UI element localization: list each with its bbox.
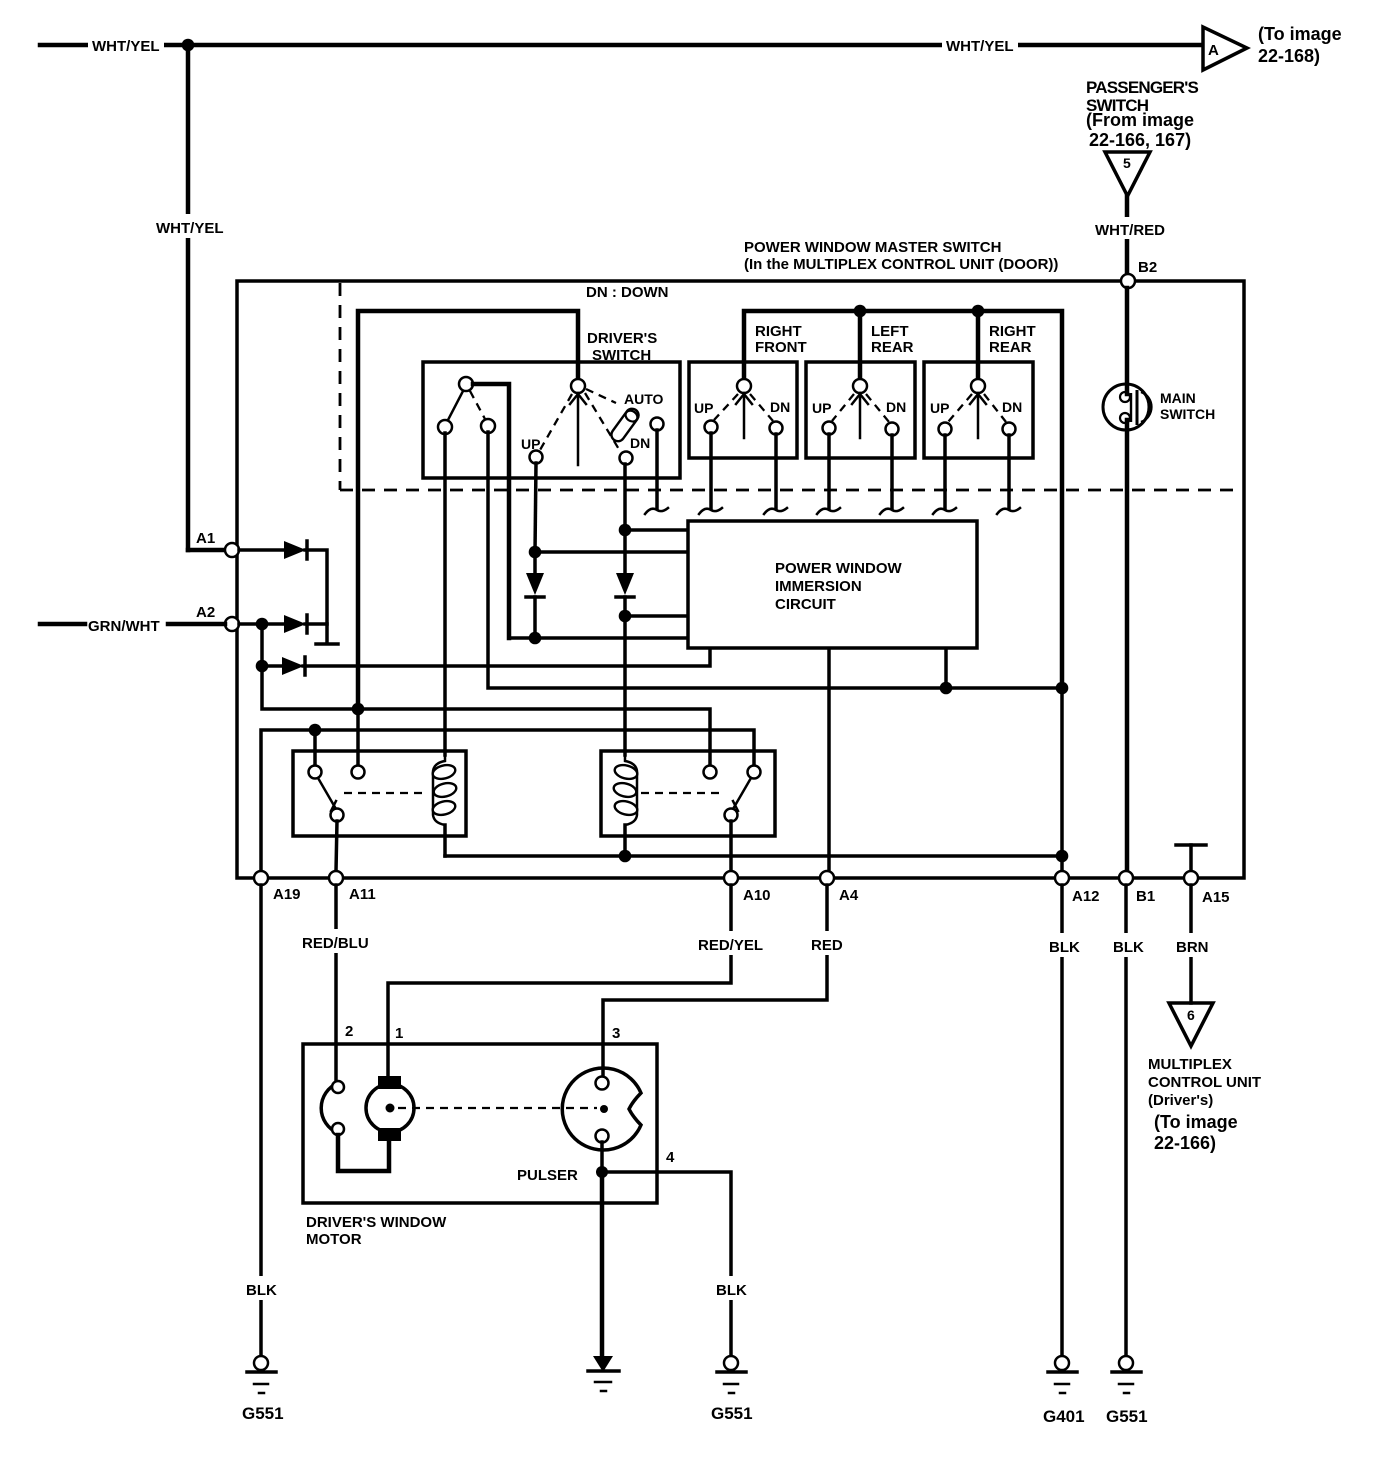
svg-text:2: 2 <box>345 1023 353 1040</box>
driver's DN contact <box>620 452 633 465</box>
wire left rear DN to open end <box>890 435 894 508</box>
wire DN chain down to relay2 coil <box>623 616 627 755</box>
wire WHT/YEL top horizontal <box>40 43 1202 48</box>
wire right rear DN to open end <box>1007 435 1011 508</box>
driver's window motor box <box>303 1044 657 1203</box>
svg-text:DN: DN <box>630 435 650 451</box>
wire bus left segment to driver's pivot <box>358 311 578 707</box>
connector B1 <box>1119 871 1133 885</box>
left rear UP contact <box>823 422 836 435</box>
wire DN pin to immersion circuit <box>625 528 686 532</box>
svg-text:REAR: REAR <box>989 339 1032 356</box>
label WHT/YEL vertical wire <box>152 214 228 238</box>
relay 1 box <box>293 751 466 836</box>
relay1 pivot contact <box>309 766 322 779</box>
label WHT/YEL right <box>942 32 1018 56</box>
label RED/BLU <box>299 929 373 953</box>
open end hook RF UP <box>699 508 722 514</box>
relay2 arm <box>733 778 751 811</box>
svg-text:A15: A15 <box>1202 889 1230 906</box>
connector A10 <box>724 871 738 885</box>
svg-text:BLK: BLK <box>716 1282 747 1299</box>
svg-text:UP: UP <box>930 400 949 416</box>
svg-text:A2: A2 <box>196 604 215 621</box>
wire pulser junction to chassis ground <box>600 1172 605 1357</box>
svg-text:A10: A10 <box>743 887 771 904</box>
svg-text:G551: G551 <box>1106 1407 1148 1426</box>
wire A4 to pulser pin3 <box>603 885 827 1075</box>
svg-text:1: 1 <box>395 1025 403 1042</box>
driver's aux switch pivot contact <box>459 377 473 391</box>
wire A10 to motor pin1 <box>388 885 731 1076</box>
left rear DN contact <box>886 423 899 436</box>
open end hook RR UP <box>933 508 956 514</box>
svg-text:GRN/WHT: GRN/WHT <box>88 618 160 635</box>
svg-text:WHT/RED: WHT/RED <box>1095 222 1165 239</box>
relay1 NC contact <box>331 809 344 822</box>
label WHT/YEL left <box>88 32 164 56</box>
right rear UP contact <box>939 423 952 436</box>
pulser top contact <box>596 1077 609 1090</box>
svg-text:UP: UP <box>694 400 713 416</box>
svg-text:WHT/YEL: WHT/YEL <box>946 38 1014 55</box>
diode D1 <box>284 541 307 559</box>
wire right front DN to open end <box>774 434 778 508</box>
driver's switch arm caret <box>570 394 586 404</box>
wire into A1 <box>188 548 225 553</box>
open end hook RR DN <box>997 508 1020 514</box>
node pulser ground junction <box>596 1166 608 1178</box>
terminal stub T-bar diode join <box>316 642 338 646</box>
right front switch box <box>689 362 797 458</box>
node D4 out junction <box>529 632 542 645</box>
pulser body <box>562 1068 641 1150</box>
wire immersion pin x946 <box>944 650 948 688</box>
label BLK B1 <box>1110 933 1146 957</box>
driver's right pin contact <box>651 418 664 431</box>
wire driver's right pin to open end <box>655 430 659 508</box>
motor armature circle <box>366 1084 414 1132</box>
label BRN <box>1173 933 1213 957</box>
svg-text:B2: B2 <box>1138 259 1157 276</box>
svg-text:(Driver's): (Driver's) <box>1148 1092 1213 1109</box>
wire left rear UP to open end <box>827 434 831 508</box>
svg-text:AUTO: AUTO <box>624 391 664 407</box>
right front UP contact <box>705 421 718 434</box>
right rear arm caret <box>970 394 986 404</box>
ground G401 <box>1048 1356 1077 1393</box>
svg-text:5: 5 <box>1123 155 1131 171</box>
wire UP pin to immersion circuit <box>535 550 686 554</box>
relay1 NO contact <box>352 766 365 779</box>
svg-text:FRONT: FRONT <box>755 339 807 356</box>
svg-text:A12: A12 <box>1072 888 1100 905</box>
svg-text:LEFT: LEFT <box>871 323 909 340</box>
node D5 out junction <box>619 610 632 623</box>
right rear pivot contact <box>971 379 985 393</box>
node bus-left junction on row 709 <box>352 703 365 716</box>
wire drop to left rear pivot <box>858 311 863 379</box>
wire WHT/RED <box>1125 196 1130 281</box>
connector A12 <box>1055 871 1069 885</box>
dashed throw to DN <box>585 393 620 451</box>
svg-text:BLK: BLK <box>1049 939 1080 956</box>
relay1 dashed link <box>344 792 428 794</box>
node row688 end junction on A12 riser <box>1056 682 1069 695</box>
driver's switch box <box>423 362 680 478</box>
wire A2 junction down <box>260 624 264 666</box>
wire B2 to B1 through main switch <box>1125 288 1130 394</box>
svg-text:DRIVER'S WINDOW: DRIVER'S WINDOW <box>306 1214 447 1231</box>
svg-text:RIGHT: RIGHT <box>755 323 802 340</box>
wire A12 riser lower <box>1060 688 1064 871</box>
connector A11 <box>329 871 343 885</box>
node junction top-left <box>182 39 195 52</box>
svg-text:A4: A4 <box>839 887 859 904</box>
wire pin4 to right ground drop <box>602 1172 731 1356</box>
dashed throw to UP <box>540 394 572 450</box>
relay2 coil lower wire <box>623 825 627 856</box>
driver's aux switch right contact <box>481 419 495 433</box>
motor upper terminal <box>378 1076 401 1089</box>
svg-text:SWITCH: SWITCH <box>1160 406 1215 422</box>
label RED <box>808 931 848 955</box>
open end hook LR UP <box>817 508 840 514</box>
node relay1 pivot drop junction <box>309 724 322 737</box>
svg-text:CIRCUIT: CIRCUIT <box>775 596 836 613</box>
motor brush top contact <box>332 1081 344 1093</box>
immersion circuit box <box>688 521 977 648</box>
wire B1 to ground <box>1124 885 1128 1356</box>
svg-text:6: 6 <box>1187 1007 1195 1023</box>
svg-text:B1: B1 <box>1136 888 1155 905</box>
ground G551 left <box>247 1356 276 1393</box>
dashed boundary horizontal <box>340 489 1237 492</box>
svg-text:MOTOR: MOTOR <box>306 1231 362 1248</box>
svg-text:BRN: BRN <box>1176 939 1209 956</box>
ground G551 right <box>1112 1356 1141 1393</box>
wire relay2 NC to A10 <box>729 821 733 871</box>
label GRN/WHT <box>40 622 85 627</box>
svg-text:CONTROL UNIT: CONTROL UNIT <box>1148 1074 1261 1091</box>
wire GRN/WHT into A2 <box>168 622 225 627</box>
wire A12 to ground <box>1060 885 1064 1356</box>
svg-text:RED/BLU: RED/BLU <box>302 935 369 952</box>
connector A1 <box>225 543 239 557</box>
svg-text:22-166): 22-166) <box>1154 1133 1216 1153</box>
right front pivot contact <box>737 379 751 393</box>
driver's aux switch arm <box>448 391 463 420</box>
label BLK pulser right <box>713 1276 749 1300</box>
wire coil ground row 856 to A12 riser <box>445 854 1062 858</box>
wire aux right contact down and row 688 <box>488 432 1062 688</box>
wire D1 out to join <box>305 550 327 641</box>
relay2 NC contact <box>725 809 738 822</box>
right front DN contact <box>770 422 783 435</box>
relay 2 box <box>601 751 775 836</box>
svg-text:REAR: REAR <box>871 339 914 356</box>
relay2 coil <box>612 751 638 825</box>
wire WHT/YEL vertical <box>186 45 191 550</box>
diode D2 <box>284 615 307 633</box>
label BLK A19 <box>243 1276 279 1300</box>
node DN pin junction <box>619 524 632 537</box>
connector B2 <box>1121 274 1135 288</box>
dashed throw to AUTO <box>586 389 616 403</box>
open end hook driver's right pin <box>645 508 668 514</box>
wire aux pivot feed right-down <box>473 384 509 638</box>
wire driver's DN down <box>623 464 627 530</box>
left rear pivot contact <box>853 379 867 393</box>
relay1 coil <box>431 751 457 825</box>
node relay2 coil junction row 856 <box>619 850 632 863</box>
relay2 NO contact <box>704 766 717 779</box>
wire bus-left down to relay1 right contact <box>356 709 360 765</box>
connector triangle 5 passenger's switch <box>1105 152 1150 196</box>
svg-text:DN: DN <box>770 399 790 415</box>
svg-text:DRIVER'S: DRIVER'S <box>587 330 657 347</box>
svg-text:RED/YEL: RED/YEL <box>698 937 763 954</box>
connector A15 <box>1184 871 1198 885</box>
right front dashed throws <box>714 394 738 420</box>
driver's UP contact <box>530 451 543 464</box>
label WHT/RED <box>1092 217 1166 239</box>
motor brush bottom contact <box>332 1123 344 1135</box>
wire A1 to diode D1 <box>239 548 286 552</box>
relay2 pivot contact <box>748 766 761 779</box>
connector A19 <box>254 871 268 885</box>
dashed boundary vertical <box>339 283 342 490</box>
node UP pin junction <box>529 546 542 559</box>
svg-text:PULSER: PULSER <box>517 1167 578 1184</box>
connector A4 <box>820 871 834 885</box>
svg-text:POWER WINDOW MASTER SWITCH: POWER WINDOW MASTER SWITCH <box>744 239 1001 256</box>
wire aux pivot row 638 to immersion circuit <box>509 636 686 640</box>
diode D4 down <box>526 552 544 638</box>
wire pulser bottom to junction <box>600 1142 604 1172</box>
wire D2 out to join <box>305 622 327 626</box>
right front arm caret <box>736 394 752 404</box>
right rear switch box <box>924 362 1033 458</box>
relay1 coil lower wire <box>443 825 447 856</box>
svg-text:A1: A1 <box>196 530 215 547</box>
driver's switch arm neutral <box>577 393 580 465</box>
motor lower terminal <box>378 1128 401 1141</box>
AUTO knob cylinder <box>609 406 641 444</box>
svg-text:G551: G551 <box>242 1404 284 1423</box>
node immersion pin x946 junction <box>940 682 953 695</box>
label RED/YEL <box>695 931 767 955</box>
driver's aux switch left contact <box>438 420 452 434</box>
main switch symbol <box>1103 384 1151 430</box>
svg-text:(In the MULTIPLEX CONTROL UNIT: (In the MULTIPLEX CONTROL UNIT (DOOR)) <box>744 256 1058 273</box>
right rear DN contact <box>1003 423 1016 436</box>
svg-text:(From image: (From image <box>1086 110 1194 130</box>
wire bus right segment over switches <box>744 311 1062 688</box>
dashed shaft link <box>398 1107 597 1109</box>
svg-text:RIGHT: RIGHT <box>989 323 1036 340</box>
wire aux left contact down to relay1 coil <box>443 433 447 755</box>
svg-text:PASSENGER'S: PASSENGER'S <box>1086 78 1199 97</box>
node diode D3 junction <box>256 660 269 673</box>
wire right front UP to open end <box>709 433 713 508</box>
chassis ground pulser <box>588 1356 619 1391</box>
driver's aux switch dashed throw <box>470 391 485 419</box>
svg-text:DN: DN <box>1002 399 1022 415</box>
wire A11 to motor pin2 <box>334 885 338 1082</box>
wire A19 up and row 730 to relay2 pivot <box>261 730 754 871</box>
svg-text:22-166, 167): 22-166, 167) <box>1089 130 1191 150</box>
wire brush bottom to motor lower terminal <box>338 1135 389 1171</box>
svg-text:3: 3 <box>612 1025 620 1042</box>
svg-text:G401: G401 <box>1043 1407 1085 1426</box>
terminal stub A15 <box>1176 845 1206 871</box>
wire D5 out to immersion circuit <box>625 614 686 618</box>
svg-text:A19: A19 <box>273 886 301 903</box>
svg-text:(To image: (To image <box>1154 1112 1238 1132</box>
open end hook RF DN <box>764 508 787 514</box>
svg-text:MULTIPLEX: MULTIPLEX <box>1148 1056 1232 1073</box>
node bus dot left rear <box>854 305 867 318</box>
svg-text:POWER WINDOW: POWER WINDOW <box>775 560 902 577</box>
wire drop to relay1 pivot <box>313 730 317 765</box>
svg-text:4: 4 <box>666 1149 675 1166</box>
svg-text:G551: G551 <box>711 1404 753 1423</box>
wire driver's UP down <box>535 463 536 552</box>
wire A15 to multiplex triangle <box>1189 885 1193 1003</box>
svg-text:BLK: BLK <box>1113 939 1144 956</box>
connector triangle 6 multiplex <box>1169 1003 1213 1046</box>
svg-text:WHT/YEL: WHT/YEL <box>92 38 160 55</box>
connector A2 <box>225 617 239 631</box>
relay2 dashed link <box>641 792 725 794</box>
left rear dashed throws <box>832 394 854 421</box>
svg-text:IMMERSION: IMMERSION <box>775 578 862 595</box>
svg-text:(To image: (To image <box>1258 24 1342 44</box>
right rear arm <box>977 393 980 438</box>
svg-text:22-168): 22-168) <box>1258 46 1320 66</box>
ground G551 middle-right <box>717 1356 746 1393</box>
diode D5 down <box>616 530 634 616</box>
diode D3 <box>262 657 305 675</box>
wire drop to right rear pivot <box>976 311 981 379</box>
outer box POWER WINDOW MASTER SWITCH <box>237 281 1244 878</box>
connector arrow A (To image 22-168) <box>1203 27 1247 70</box>
left rear arm <box>859 393 862 438</box>
svg-text:DN: DN <box>886 399 906 415</box>
wire relay1 NC to A11 <box>336 821 337 871</box>
node row856 end junction on A12 riser <box>1056 850 1069 863</box>
open end hook LR DN <box>880 508 903 514</box>
left rear arm caret <box>852 394 868 404</box>
svg-text:UP: UP <box>812 400 831 416</box>
wire immersion pin to A4 <box>827 650 831 871</box>
svg-text:RED: RED <box>811 937 843 954</box>
svg-text:A: A <box>1208 42 1219 59</box>
relay1 arm <box>318 778 336 811</box>
node bus dot right rear <box>972 305 985 318</box>
svg-text:A11: A11 <box>349 886 376 903</box>
label BLK A12 <box>1046 933 1082 957</box>
motor brush arc <box>321 1083 338 1133</box>
svg-text:DN : DOWN: DN : DOWN <box>586 284 669 301</box>
pulser bottom contact <box>596 1130 609 1143</box>
svg-text:WHT/YEL: WHT/YEL <box>156 220 224 237</box>
wire A2 junction to row 709 <box>262 666 710 765</box>
right rear dashed throws <box>948 394 972 422</box>
svg-text:BLK: BLK <box>246 1282 277 1299</box>
wire D3 output to immersion circuit pin <box>303 650 710 666</box>
wire right rear UP to open end <box>943 435 947 508</box>
wire A2 to diode D2 <box>239 622 286 626</box>
left rear switch box <box>806 362 915 458</box>
right front arm <box>743 393 746 438</box>
wire A19 to ground <box>259 885 263 1356</box>
svg-text:MAIN: MAIN <box>1160 390 1196 406</box>
node A2 junction <box>256 618 269 631</box>
driver's main pivot contact <box>571 379 585 393</box>
pulser center dot <box>600 1105 608 1113</box>
motor center dot <box>386 1104 395 1113</box>
